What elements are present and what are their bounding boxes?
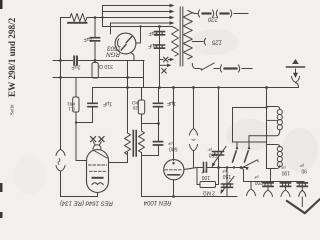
link arc pair 2 xyxy=(216,10,232,17)
edge artifact bottom-left xyxy=(0,212,3,218)
coil L2 loops xyxy=(277,146,282,151)
socket fork F1 xyxy=(250,182,252,190)
node CV2 y167.5 xyxy=(226,166,229,169)
V2 side stub to T2 xyxy=(109,162,128,164)
label C6 1uF (upside down) xyxy=(167,100,176,106)
T2 secondary (right zigzag) xyxy=(139,131,145,153)
V2 cathode bar xyxy=(93,177,103,179)
node y167.5 x247 xyxy=(246,167,248,169)
wire bus y77.5 xyxy=(53,77,144,79)
wire x232 xyxy=(232,108,234,143)
resistor R1 bar xyxy=(68,22,87,24)
wire R2 bottom xyxy=(94,77,96,80)
resistor R1 zigzag xyxy=(70,14,87,22)
wire L4 y23 xyxy=(111,22,170,24)
fork F4 xyxy=(299,190,306,196)
coil L1 tap xyxy=(267,119,278,121)
label R2 310 ohm (upside down) xyxy=(99,63,113,69)
variable capacitor CV2 150 xyxy=(226,168,228,184)
node L5 anode elbow xyxy=(139,25,141,27)
svg-text:310 Ω: 310 Ω xyxy=(99,63,113,69)
node CV1 y167.5 xyxy=(217,166,220,169)
plug P1 cup xyxy=(56,166,65,172)
switch S4 blade with hook xyxy=(244,161,257,168)
node L3 x102.5 xyxy=(101,16,103,18)
node y167.5 x234 xyxy=(233,166,235,168)
wire y123 xyxy=(142,123,159,125)
wire bus y88 start elbow xyxy=(93,87,299,89)
wire bottom tail xyxy=(242,68,252,70)
wire T2 secondary top lead xyxy=(141,124,143,132)
variable capacitor CV1 550 lead xyxy=(218,88,220,151)
switch S1 blade xyxy=(202,63,215,70)
label C2 2uF (upside down) xyxy=(71,64,80,70)
edge artifact left middle-bottom xyxy=(0,183,3,192)
scan smudges xyxy=(14,29,318,195)
wire x266 between coils xyxy=(266,107,268,169)
label CV1 550 (upside down) xyxy=(207,147,217,157)
wire rail lower x60 xyxy=(60,171,62,197)
label C10 100 pF (upside down) xyxy=(280,165,290,175)
node coil top xyxy=(265,106,267,108)
grid leak R5 2Mohm xyxy=(197,168,200,185)
wire x95 top xyxy=(94,18,96,38)
CV1 arrow xyxy=(213,147,227,166)
svg-text:pF: pF xyxy=(207,147,212,151)
svg-text:200: 200 xyxy=(254,179,263,185)
arrow L1 xyxy=(170,4,175,8)
tap 125 xyxy=(192,39,205,46)
svg-text:90: 90 xyxy=(301,168,307,174)
svg-text:220: 220 xyxy=(207,16,219,22)
arrow L2 xyxy=(170,10,175,14)
switch S2 blade xyxy=(233,151,237,162)
coil L1 loops xyxy=(277,109,282,114)
rectifier tube V1 RGN1503 envelope xyxy=(115,33,136,54)
svg-text:100: 100 xyxy=(201,174,210,180)
coil L1 bottom wire to switch xyxy=(249,130,280,136)
label CV2 150 (upside down) xyxy=(221,169,231,179)
V2 bottom lead xyxy=(97,193,99,197)
node x127.5 y88 xyxy=(126,86,129,89)
svg-text:550: 550 xyxy=(208,152,217,158)
wire R3 bottom elbow xyxy=(76,112,93,123)
wire T2 primary bottom elbow to tube xyxy=(127,153,129,163)
V2 X mark left xyxy=(91,137,96,142)
plug P2 cup xyxy=(190,145,198,152)
V1 filament lead to y60.5 xyxy=(131,53,135,61)
node P2 bus xyxy=(192,86,195,89)
mains line 220 xyxy=(192,12,198,15)
node rail y77.5 xyxy=(59,76,62,79)
switch S2 contact stub xyxy=(236,142,238,148)
V3 plate feed from bus xyxy=(173,88,175,161)
wire L1 y5.5 xyxy=(103,5,170,7)
V3 envelope xyxy=(164,160,184,180)
wire to ground V xyxy=(301,197,303,207)
svg-text:EW 298/1 und 298/2: EW 298/1 und 298/2 xyxy=(7,17,17,97)
capacitor C8 grid 100pF xyxy=(204,163,207,173)
capacitor C7 500pF xyxy=(154,142,163,145)
T1 primary winding (right zigzag) xyxy=(183,11,192,59)
arrow L4 xyxy=(170,21,175,25)
label 220 (upside down) xyxy=(207,16,219,22)
node x127.5 y77.5 xyxy=(126,76,129,79)
node CV1 on bus xyxy=(217,86,220,89)
wire bottom-left y196.5 xyxy=(61,196,98,198)
svg-text:2µF: 2µF xyxy=(71,64,80,70)
svg-text:1503: 1503 xyxy=(107,45,121,52)
wire y142 xyxy=(233,141,267,143)
heater stub 2 with arrow xyxy=(160,64,167,66)
V2 grid dashed xyxy=(89,164,107,166)
svg-text:1µF: 1µF xyxy=(103,101,112,107)
wire stub y77.5 xyxy=(53,77,61,79)
node x241 y168.5 xyxy=(240,166,243,169)
wire L2 y11.5 xyxy=(103,11,170,13)
CV2 arrow xyxy=(222,177,235,193)
wire x127.5 rect out / choke feed xyxy=(127,61,129,134)
wire x95 mid xyxy=(94,42,96,61)
plug P2 on x193 xyxy=(193,88,195,129)
wire y155 collector xyxy=(142,156,159,197)
svg-text:pF: pF xyxy=(167,141,172,146)
resistor R2 310 ohm box xyxy=(94,61,96,63)
coil feed node xyxy=(265,86,268,89)
svg-text:pF: pF xyxy=(253,175,258,179)
T2 core xyxy=(133,131,136,157)
V2 top cap leads xyxy=(93,142,101,145)
wire L3 y17.5 (resistor feed continues) xyxy=(98,17,169,19)
svg-text:2µF: 2µF xyxy=(148,30,157,36)
V1 anode 2 elbow to L5 xyxy=(136,27,141,44)
svg-text:RGN: RGN xyxy=(106,51,120,58)
capacitor C6 1uF xyxy=(154,103,163,106)
wire bottom y196.5 center xyxy=(142,196,238,198)
label C9 200 pF (upside down) xyxy=(253,175,263,185)
wire C7 leads xyxy=(158,124,160,156)
svg-text:Seibt: Seibt xyxy=(10,104,16,115)
node cap branch top xyxy=(94,16,97,19)
V2 anode diagonal xyxy=(94,151,107,159)
svg-text:pF: pF xyxy=(221,169,226,173)
wire T2 secondary bottom to y155 xyxy=(141,153,143,156)
antenna cup xyxy=(292,77,300,83)
V3 grid dashed line xyxy=(165,169,183,171)
wire y107.5 xyxy=(233,107,267,109)
label 125 (upside down) xyxy=(211,39,222,45)
arrow L3 xyxy=(170,16,175,20)
capacitor C5 2uF lower xyxy=(155,45,165,48)
capacitor C10 100 xyxy=(285,181,287,184)
wire y168 left of x241 already; segment to bus corner xyxy=(241,168,244,182)
V2 envelope xyxy=(87,150,109,193)
label REN 1004 upside down xyxy=(143,199,171,205)
svg-text:2µF: 2µF xyxy=(83,36,92,42)
label C5 2uF (upside down) xyxy=(148,43,157,49)
V2 X mark right xyxy=(99,137,104,142)
svg-text:2 MΩ: 2 MΩ xyxy=(203,190,215,196)
wire bus y181 xyxy=(244,181,305,183)
V2 top cap dome xyxy=(93,145,101,150)
wire cap chain x159.5 xyxy=(159,27,161,88)
svg-text:pF: pF xyxy=(200,170,205,174)
CV1 plates xyxy=(213,152,224,156)
wire coil bottom elbow xyxy=(267,169,271,182)
wire top-left y17.5 xyxy=(61,17,99,19)
resistor R4 20k box xyxy=(141,88,143,101)
fork F3 xyxy=(281,190,290,197)
capacitor C1 2uF xyxy=(91,38,100,41)
plug P2 label mark xyxy=(192,139,195,142)
svg-text:150: 150 xyxy=(222,173,231,179)
wire stub y60.5 xyxy=(53,60,61,62)
capacitor C4 2uF upper xyxy=(155,32,165,35)
capacitor C2 series 2uF xyxy=(74,57,77,65)
label R3 0,1 Mohm (upside down) xyxy=(67,101,75,112)
V1 filament arc xyxy=(117,39,118,47)
antenna triangle xyxy=(292,59,299,64)
plug P2 fork xyxy=(190,129,198,136)
wire C3 leads xyxy=(92,88,94,123)
coil L2 body xyxy=(267,145,280,169)
label C8 100 pF (upside down) xyxy=(200,170,210,180)
wire 220 tail xyxy=(234,13,248,15)
switch S3 blade xyxy=(245,151,249,162)
wire x266 coil feed xyxy=(266,88,268,107)
antenna bar xyxy=(287,66,305,68)
svg-text:kΩ: kΩ xyxy=(132,100,138,106)
svg-text:100: 100 xyxy=(281,170,290,176)
T1 core xyxy=(180,7,183,66)
CV2 plates xyxy=(222,184,233,187)
node L5 cap branch xyxy=(158,25,161,28)
antenna arrow xyxy=(295,69,297,73)
wire L4 elbow to tube anode xyxy=(110,23,112,34)
node x95 y60.5 xyxy=(94,59,97,62)
svg-text:pF: pF xyxy=(280,165,285,169)
capacitor C9 200 xyxy=(267,181,269,184)
node cap chain on bus xyxy=(158,86,161,89)
T2 primary (left zigzag) xyxy=(125,133,131,155)
svg-text:MΩ: MΩ xyxy=(67,101,75,107)
switch S3 contact stub xyxy=(248,136,250,148)
label C7 500 (upside down) xyxy=(167,141,177,151)
V2 grid feed wire xyxy=(76,123,87,161)
label R5 2 Mohm (upside down) xyxy=(203,190,215,196)
svg-text:125: 125 xyxy=(211,39,222,45)
wire L1 elbow vertical x102.5 xyxy=(102,6,104,27)
plug P2 lower lead xyxy=(193,151,195,168)
wire C6 leads xyxy=(158,88,160,124)
V3 grid stub right xyxy=(184,168,197,170)
label RES 164d (RE 134) upside down xyxy=(60,200,113,206)
capacitor C3 1uF xyxy=(88,103,97,106)
coil L1 body xyxy=(267,107,280,110)
V3 cathode bar xyxy=(168,174,180,176)
heater stub 1 with X and arrow xyxy=(160,59,164,61)
svg-text:2µF: 2µF xyxy=(148,43,157,49)
node V3 feed on bus xyxy=(172,86,175,89)
V2 filament arcs xyxy=(92,183,103,185)
wire left rail x60 xyxy=(60,18,62,150)
fork F2 xyxy=(264,190,273,197)
mains line bottom with switch S1 xyxy=(192,64,200,69)
heater X mark 3 xyxy=(162,69,166,73)
CV1 lower lead xyxy=(218,156,220,168)
label RGN 1503 (upside down) xyxy=(106,45,121,58)
svg-text:REN 1004: REN 1004 xyxy=(143,199,171,205)
svg-text:1µF: 1µF xyxy=(167,100,176,106)
resistor R3 0.1 Mohm: lead, box xyxy=(75,78,77,98)
ground V symbol xyxy=(287,200,320,214)
label C1 2uF (upside down) xyxy=(83,36,92,42)
plug P1 fork xyxy=(56,149,65,155)
label R4 20k (upside down) xyxy=(132,100,138,111)
label C3 1uF (upside down) xyxy=(103,101,112,107)
V1 anode bar upper xyxy=(126,37,132,43)
edge artifact top-left xyxy=(0,0,3,9)
T1 secondary winding (left zigzag) xyxy=(172,28,179,56)
wire L5 y26.5 xyxy=(103,27,176,29)
node V3 bottom xyxy=(172,195,175,198)
node y123 x158 xyxy=(157,122,160,125)
V1 anode bar lower xyxy=(121,45,126,51)
svg-text:RES 164d (RE 134): RES 164d (RE 134) xyxy=(60,200,113,206)
antenna elbow into bus xyxy=(296,83,299,88)
label C11 90 pF (upside down) xyxy=(299,163,307,173)
node rail y60.5 xyxy=(59,59,62,62)
V3 grid dot xyxy=(172,162,174,164)
link arc pair 3 xyxy=(220,65,240,72)
svg-text:pF: pF xyxy=(299,163,304,167)
capacitor C11 90 xyxy=(301,181,303,184)
wire y60.5 xyxy=(53,60,144,62)
node grid feed xyxy=(75,121,77,123)
label C4 2uF (upside down) xyxy=(148,30,157,36)
V2 inner line xyxy=(90,170,106,172)
CV2 lower lead xyxy=(226,188,228,197)
wire y167.5 xyxy=(197,167,248,169)
wire y60.5 end elbow xyxy=(143,61,145,88)
link arc pair 1 xyxy=(198,10,214,17)
V3 bottom lead xyxy=(173,180,175,197)
